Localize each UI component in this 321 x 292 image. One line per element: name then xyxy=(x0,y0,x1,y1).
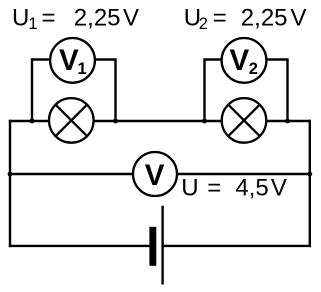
junction node dot V2 right xyxy=(285,119,290,124)
svg-text:V: V xyxy=(230,44,250,77)
battery positive plate (long thin) xyxy=(161,206,163,285)
lamp L1 xyxy=(49,98,94,143)
lamp L2 xyxy=(222,98,267,143)
svg-text:1: 1 xyxy=(78,60,87,78)
junction node dot V1 left xyxy=(30,119,35,124)
voltmeter V1 xyxy=(50,38,95,83)
junction node dot V1 right xyxy=(113,119,118,124)
junction node dot V2 left xyxy=(202,119,207,124)
wire right edge xyxy=(309,120,311,247)
junction node dot middle left xyxy=(8,172,13,177)
wire V1 measuring loop xyxy=(32,60,116,122)
svg-text:2: 2 xyxy=(249,60,258,78)
junction node dot middle right xyxy=(307,172,312,177)
wire V2 measuring loop xyxy=(205,60,288,122)
svg-text:V: V xyxy=(145,159,165,192)
voltmeter V (total) xyxy=(133,152,177,196)
wire left edge xyxy=(9,120,11,247)
svg-text:U=4,5V: U=4,5V xyxy=(181,175,287,202)
wire middle row (through voltmeter V) xyxy=(9,173,310,175)
wire bottom right (from battery) xyxy=(163,245,311,247)
svg-text:U2=2,25V: U2=2,25V xyxy=(184,5,307,34)
wire top row (through lamps) xyxy=(9,120,311,122)
svg-text:U1=2,25V: U1=2,25V xyxy=(12,5,139,34)
voltmeter V2 xyxy=(222,38,267,83)
svg-text:V: V xyxy=(59,44,79,77)
wire bottom left (to battery) xyxy=(9,245,150,247)
battery negative plate (short thick) xyxy=(149,227,156,266)
